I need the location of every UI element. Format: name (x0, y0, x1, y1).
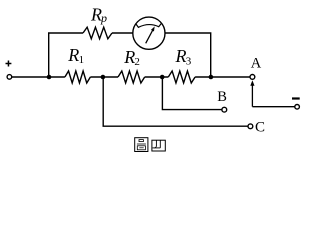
svg-text:3: 3 (186, 55, 192, 67)
caption glyph "四" (four) (152, 140, 165, 151)
switch arrow (selector arm pointing to A) (250, 80, 254, 107)
wire: + terminal to resistor R1 (through node J1) (12, 76, 65, 78)
svg-text:p: p (100, 11, 107, 25)
terminal + (open circle input terminal) (7, 75, 12, 80)
resistor R2 (118, 71, 145, 83)
svg-text:R: R (67, 45, 79, 65)
svg-text:A: A (251, 55, 262, 71)
wire: switch arm to - terminal (252, 106, 294, 108)
svg-text:1: 1 (79, 54, 85, 66)
wire: R3 to terminal A (through node J4) (195, 76, 250, 78)
minus sign (battery - polarity mark) (292, 97, 300, 99)
svg-text:C: C (255, 120, 265, 136)
galvanometer scale arc (136, 23, 162, 27)
wire: node J3 down and right to terminal B (162, 77, 222, 110)
node J2 (junction after R1, branch to C) (101, 75, 106, 80)
wire: R1 to R2 (through node J2) (90, 76, 118, 78)
wire: node J1 up and right to resistor Rp (49, 33, 83, 77)
terminal - (open circle) (295, 105, 300, 110)
resistor R1 (65, 71, 90, 83)
svg-text:R: R (175, 46, 187, 66)
wire: resistor Rp to galvanometer (112, 32, 133, 34)
galvanometer needle (146, 26, 155, 43)
svg-text:R: R (123, 47, 135, 67)
terminal B (open circle) (222, 107, 227, 112)
terminal A (open circle) (250, 75, 255, 80)
label R3 (175, 46, 192, 67)
svg-text:B: B (217, 89, 227, 105)
resistor Rp (83, 27, 112, 39)
node J3 (junction after R2, branch to B) (160, 75, 165, 80)
wire: node J2 down and right to terminal C (103, 77, 248, 126)
caption glyph "圖" (figure) (135, 138, 148, 152)
galvanometer G (meter body) (133, 17, 165, 49)
label Rp (90, 5, 107, 25)
wire: galvanometer right then down to node J4 (165, 33, 211, 77)
node J1 (junction before R1, branch to Rp) (47, 75, 52, 80)
terminal C (open circle) (248, 124, 253, 129)
plus sign (battery + polarity mark) (6, 61, 12, 67)
wire: R2 to R3 (through node J3) (145, 76, 169, 78)
node J4 (junction after R3, meter branch return) (209, 75, 214, 80)
label R1 (67, 45, 84, 66)
svg-text:2: 2 (134, 56, 140, 68)
label R2 (123, 47, 140, 68)
resistor R3 (168, 71, 195, 83)
